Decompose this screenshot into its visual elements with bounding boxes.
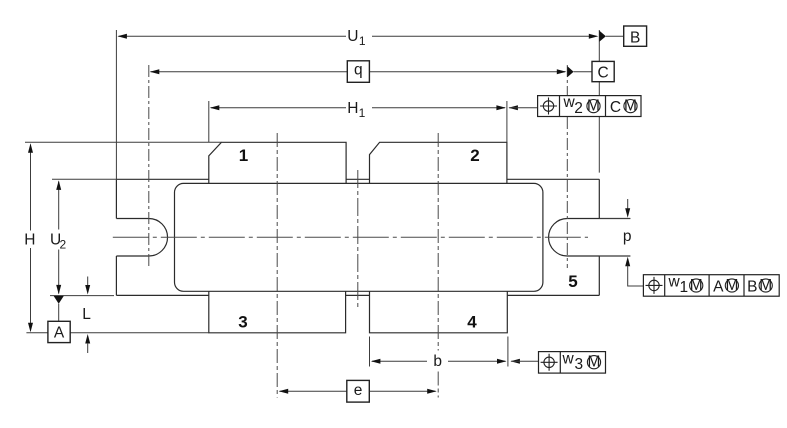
left hole centerline [148,65,150,268]
b extension lines [370,337,508,367]
svg-text:M: M [624,97,637,114]
dimension b [371,353,507,370]
dimension U2 [50,180,66,294]
svg-text:1: 1 [239,146,248,165]
svg-text:q: q [354,61,363,78]
U1 extension line left [115,30,117,179]
svg-text:A: A [54,324,65,341]
dimension H [24,143,35,332]
datum B [599,26,646,47]
svg-text:M: M [759,277,772,294]
p extension lines [599,219,630,257]
dimension q [150,61,567,83]
U2 extension line bottom / datum A surface [50,295,114,297]
horizontal centerline [113,236,588,238]
svg-text:M: M [587,97,600,114]
svg-text:2: 2 [470,146,479,165]
svg-text:H: H [347,100,358,117]
U1 extension line right [598,30,600,173]
right hole centerline [566,65,568,268]
svg-text:1: 1 [359,34,366,48]
svg-text:A: A [713,279,724,296]
svg-text:w: w [562,350,575,367]
feature control frame w1 [643,274,779,297]
svg-text:5: 5 [568,272,577,291]
svg-text:3: 3 [575,356,584,373]
right mounting slot [549,219,631,257]
dimension e [279,380,437,402]
svg-text:U: U [347,28,358,45]
U2 extension line top [52,178,116,180]
lead 2-4 centerline [437,133,439,398]
svg-text:b: b [433,353,442,370]
svg-text:B: B [630,30,640,47]
svg-text:1: 1 [680,279,689,296]
svg-text:3: 3 [238,313,247,332]
dimension L [82,277,91,354]
left mounting slot [116,219,167,257]
lead 1 [209,142,346,183]
svg-text:H: H [24,231,35,248]
flange outline [116,179,599,295]
svg-text:M: M [725,277,738,294]
svg-text:B: B [747,279,757,296]
feature control frame w3 [539,350,606,373]
lead 2 [370,142,507,183]
lead 3 [209,291,346,333]
datum C [567,61,614,81]
svg-text:2: 2 [59,238,66,252]
package vertical centerline [357,170,359,308]
lead 1-3 centerline [276,133,278,398]
dimension p [623,199,644,286]
svg-text:4: 4 [467,313,477,332]
svg-text:C: C [610,99,621,116]
svg-text:1: 1 [359,106,366,120]
body [175,183,543,291]
feature control frame w2 [538,94,641,117]
w3 tolerance leader [510,359,538,364]
svg-text:p: p [623,228,632,245]
svg-text:C: C [597,65,608,82]
H extension line bottom [26,332,208,334]
w2 tolerance leader [508,105,537,110]
svg-text:2: 2 [574,100,583,117]
H extension line top [25,141,221,143]
lead 4 [370,291,508,333]
dimension U1 [117,28,598,48]
svg-text:M: M [588,354,601,371]
svg-text:e: e [354,382,363,399]
H1 extension line left [208,101,210,142]
svg-text:M: M [690,277,703,294]
dimension H1 [210,100,506,120]
H1 extension line right [506,101,508,142]
datum A [48,296,70,343]
svg-text:L: L [82,306,91,323]
